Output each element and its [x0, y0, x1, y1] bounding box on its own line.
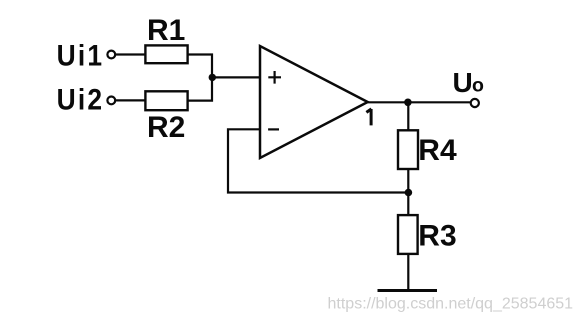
node A junction dot	[209, 74, 216, 81]
svg-text:https://blog.csdn.net/qq_25854: https://blog.csdn.net/qq_25854651	[328, 296, 574, 313]
wire minus input feedback	[228, 129, 408, 192]
node C output junction dot	[404, 99, 412, 107]
wire R4 to node B	[407, 169, 409, 193]
node B feedback junction dot	[405, 189, 413, 197]
wire R3 to ground	[407, 254, 409, 291]
ground	[378, 289, 438, 292]
svg-text:R1: R1	[147, 14, 185, 47]
op-amp U1	[260, 46, 368, 158]
wire R1 to node A	[188, 55, 212, 78]
svg-text:o: o	[472, 75, 484, 97]
svg-text:Ui1: Ui1	[57, 38, 105, 72]
op-amp minus sign	[268, 128, 279, 130]
op-amp output pin label 1	[366, 109, 371, 126]
wire output node to R4	[407, 102, 409, 131]
wire node B to R3	[407, 193, 409, 216]
wire input2 to R2	[115, 99, 146, 101]
svg-text:U: U	[453, 67, 473, 98]
svg-text:R2: R2	[147, 111, 185, 144]
svg-text:R3: R3	[418, 219, 456, 252]
terminal output Uo	[471, 99, 479, 107]
resistor R2	[145, 91, 187, 110]
svg-text:R4: R4	[418, 134, 457, 167]
wire input1 to R1	[115, 53, 146, 55]
resistor R1	[145, 45, 187, 63]
svg-text:Ui2: Ui2	[57, 82, 105, 116]
resistor R4	[398, 130, 418, 169]
terminal input 2	[107, 97, 115, 105]
op-amp plus sign	[268, 71, 281, 84]
wire R2 to node A	[188, 77, 212, 100]
terminal input 1	[107, 51, 115, 59]
wire node A to op-amp plus input	[212, 76, 260, 78]
resistor R3	[398, 215, 418, 254]
wire op-amp output	[368, 101, 471, 103]
